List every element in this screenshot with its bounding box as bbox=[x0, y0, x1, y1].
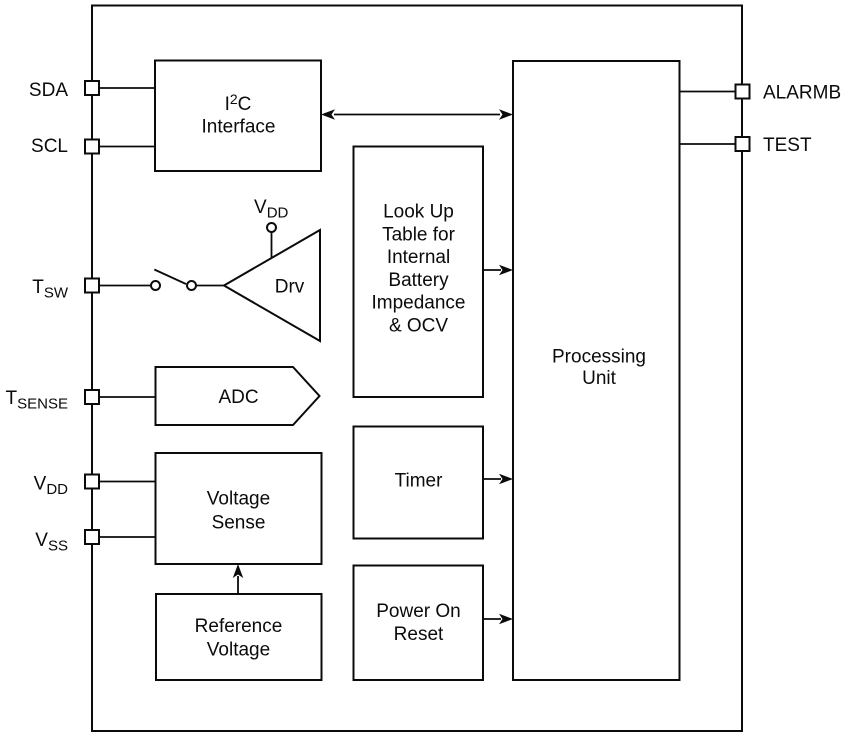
bidirectional arrow I2C to Processing Unit bbox=[321, 109, 513, 119]
svg-text:Sense: Sense bbox=[212, 512, 266, 533]
block ADC (pentagon arrow shape) bbox=[156, 367, 320, 425]
svg-text:Interface: Interface bbox=[202, 116, 276, 137]
svg-text:Voltage: Voltage bbox=[207, 488, 270, 509]
arrow Reference Voltage to Voltage Sense bbox=[233, 564, 243, 594]
power VDD supply above driver bbox=[254, 197, 289, 258]
wire VDD to Voltage Sense bbox=[99, 481, 156, 483]
wire Processing Unit to TEST bbox=[680, 143, 736, 145]
svg-text:Drv: Drv bbox=[275, 276, 305, 297]
svg-text:I2C: I2C bbox=[225, 91, 252, 115]
svg-text:Table for: Table for bbox=[382, 224, 456, 245]
svg-text:VSS: VSS bbox=[35, 530, 68, 555]
chip outline bbox=[92, 6, 742, 732]
svg-text:Reset: Reset bbox=[394, 624, 444, 645]
arrow Power On Reset to Processing Unit bbox=[483, 614, 513, 624]
pin VDD bbox=[34, 474, 99, 499]
wire switch to driver apex bbox=[196, 285, 224, 287]
svg-text:Unit: Unit bbox=[582, 368, 617, 389]
pin TEST bbox=[736, 135, 812, 156]
block Look Up Table bbox=[354, 147, 484, 398]
svg-text:Processing: Processing bbox=[552, 347, 646, 368]
svg-text:VDD: VDD bbox=[34, 474, 69, 499]
arrow Look Up Table to Processing Unit bbox=[483, 265, 513, 275]
block Voltage Sense bbox=[156, 453, 322, 564]
pin ALARMB bbox=[736, 82, 842, 103]
svg-text:Impedance: Impedance bbox=[371, 293, 465, 314]
svg-text:Timer: Timer bbox=[395, 471, 444, 492]
block Processing Unit bbox=[513, 61, 680, 680]
block I2C Interface bbox=[155, 61, 321, 172]
svg-text:Look Up: Look Up bbox=[383, 202, 454, 223]
op-amp driver Drv (triangle) bbox=[224, 230, 320, 341]
svg-text:Reference: Reference bbox=[195, 616, 283, 637]
svg-text:VDD: VDD bbox=[254, 197, 289, 222]
svg-text:& OCV: & OCV bbox=[389, 316, 448, 337]
svg-text:Power On: Power On bbox=[376, 601, 460, 622]
wire TSW to switch bbox=[99, 285, 151, 287]
arrow Timer to Processing Unit bbox=[483, 474, 513, 484]
pin TSENSE bbox=[6, 388, 99, 413]
block Power On Reset bbox=[354, 566, 484, 681]
svg-text:ALARMB: ALARMB bbox=[763, 82, 841, 103]
svg-text:Voltage: Voltage bbox=[207, 639, 270, 660]
svg-text:Internal: Internal bbox=[387, 247, 450, 268]
switch (SPST) on TSW line bbox=[151, 270, 196, 291]
pin TSW bbox=[32, 277, 99, 302]
block Timer bbox=[354, 427, 484, 539]
wire SCL to I2C bbox=[99, 146, 155, 148]
pin VSS bbox=[35, 530, 99, 555]
pin SDA bbox=[29, 80, 99, 101]
svg-text:TSENSE: TSENSE bbox=[6, 388, 68, 413]
wire TSENSE to ADC bbox=[99, 396, 156, 398]
svg-text:TSW: TSW bbox=[32, 277, 69, 302]
svg-text:SDA: SDA bbox=[29, 80, 68, 101]
wire VSS to Voltage Sense bbox=[99, 536, 156, 538]
svg-text:SCL: SCL bbox=[31, 136, 68, 157]
svg-text:Battery: Battery bbox=[388, 270, 449, 291]
wire SDA to I2C bbox=[99, 87, 155, 89]
pin SCL bbox=[31, 136, 99, 157]
block Reference Voltage bbox=[156, 594, 322, 680]
wire Processing Unit to ALARMB bbox=[680, 91, 736, 93]
svg-text:TEST: TEST bbox=[763, 135, 812, 156]
svg-text:ADC: ADC bbox=[218, 387, 258, 408]
